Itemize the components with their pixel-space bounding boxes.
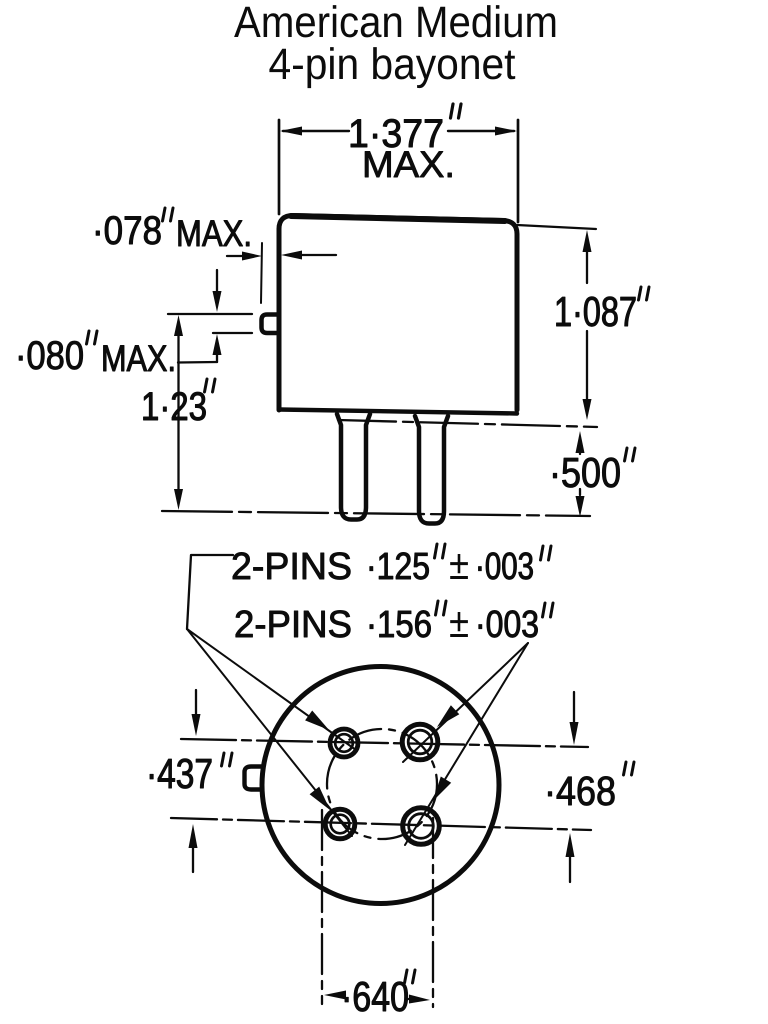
pitch circle (dash-dot): [327, 729, 437, 839]
arrow .078 pointing left: [300, 254, 336, 256]
leader bracket left: [187, 555, 233, 629]
centerline left pin column vertical: [321, 810, 323, 1004]
plus-minus row2: [450, 612, 468, 637]
label 2-PINS (row 1): [233, 553, 350, 580]
inch mark row1 b: [541, 546, 552, 560]
label .156 (row 2): [370, 611, 431, 638]
inch mark row2 a: [436, 601, 447, 615]
arrow .437 down: [195, 690, 197, 716]
pin top-right bottom view: [402, 724, 438, 760]
bayonet pin side view: [262, 315, 279, 334]
label .125 (row 1): [370, 553, 429, 580]
inch mark .080: [87, 331, 98, 344]
label .640: [345, 982, 408, 1012]
dim line .500 upper arrow: [579, 452, 581, 454]
label 2-PINS (row 2): [236, 611, 350, 638]
leader to top-right pin: [403, 643, 528, 762]
label .500: [553, 458, 619, 488]
label .468: [548, 776, 614, 805]
inch mark .500: [625, 448, 636, 461]
extension tick at bayonet face: [261, 243, 262, 303]
centerline top pins: [181, 739, 588, 747]
pin top-left bottom view: [330, 729, 358, 757]
title line 2: [269, 47, 515, 88]
centerline pin tips (dash-dot): [162, 511, 590, 516]
arrowhead 1.23 up: [174, 315, 183, 336]
dim line 1.23 vertical: [177, 333, 179, 492]
inch mark .468: [624, 762, 635, 775]
arrow .078 pointing right: [227, 255, 243, 257]
label .080: [19, 341, 83, 369]
extension line pin bottom face: [213, 332, 252, 334]
label 1.377: [351, 119, 442, 147]
label .003 (row 2): [479, 611, 538, 638]
leader to bottom-left pin: [187, 629, 352, 836]
inch mark .437: [222, 753, 233, 766]
leader to bottom-right pin: [405, 643, 528, 845]
leader to top-left pin: [187, 629, 356, 750]
envelope body outline: [279, 216, 517, 411]
arrowhead 1.377 right: [495, 127, 517, 136]
arrow .437 up: [192, 846, 194, 872]
label MAX. (.078): [179, 221, 250, 247]
pin bottom-right bottom view: [403, 808, 440, 845]
arrow .468 up: [569, 855, 571, 882]
dim line 1.087 lower: [586, 331, 588, 400]
arrowhead 1.23 down: [174, 489, 183, 510]
inch mark row1 a: [435, 544, 446, 558]
label MAX. (.080): [104, 346, 174, 372]
centerline right pin column vertical: [432, 818, 434, 1007]
label 1.23: [144, 392, 206, 420]
arrow .080 up with leader: [216, 352, 218, 362]
base circle bottom view: [262, 667, 499, 904]
centerline pin shoulder (dash-dot): [338, 420, 597, 427]
dim .640 right arrow: [408, 998, 412, 1000]
pin left side view: [337, 414, 370, 520]
inch mark 1.23: [205, 379, 216, 392]
bayonet pin bottom view: [245, 767, 262, 790]
dim line .500 lower arrow: [579, 489, 581, 495]
inch mark .078: [163, 208, 174, 221]
inch mark .640: [405, 970, 416, 983]
dim line 1.087 upper: [586, 250, 588, 283]
arrowhead 1.377 left: [280, 127, 302, 136]
dim line 1.377 right segment: [448, 130, 514, 132]
pin bottom-left bottom view: [325, 809, 355, 839]
dim line 1.377 left segment: [283, 130, 349, 132]
arrowhead 1.087 down: [583, 399, 592, 420]
label .437: [150, 759, 211, 789]
envelope bottom edge: [279, 410, 517, 414]
extension line pin top face: [168, 313, 252, 315]
plus-minus row1: [450, 554, 468, 579]
extension line top right (1.087): [517, 225, 596, 229]
extension line right (1.377): [517, 120, 520, 222]
extension line left (1.377): [278, 120, 281, 214]
pin right side view: [415, 416, 448, 524]
inch mark 1.087: [639, 287, 650, 300]
envelope top edge thick stroke: [291, 216, 505, 221]
inch mark row2 b: [543, 603, 554, 617]
label .003 (row 1): [479, 553, 533, 580]
arrowhead 1.087 up: [583, 230, 592, 252]
label .078 MAX: [96, 216, 160, 244]
title line 1: [234, 5, 555, 37]
label MAX (1.377): [365, 152, 451, 178]
arrow .080 down: [216, 270, 218, 292]
inch mark 1.377: [451, 104, 462, 118]
dim .640 left arrow: [341, 994, 345, 996]
arrow .468 down: [573, 692, 575, 723]
centerline bottom pins: [171, 818, 591, 830]
label 1.087: [557, 297, 636, 327]
